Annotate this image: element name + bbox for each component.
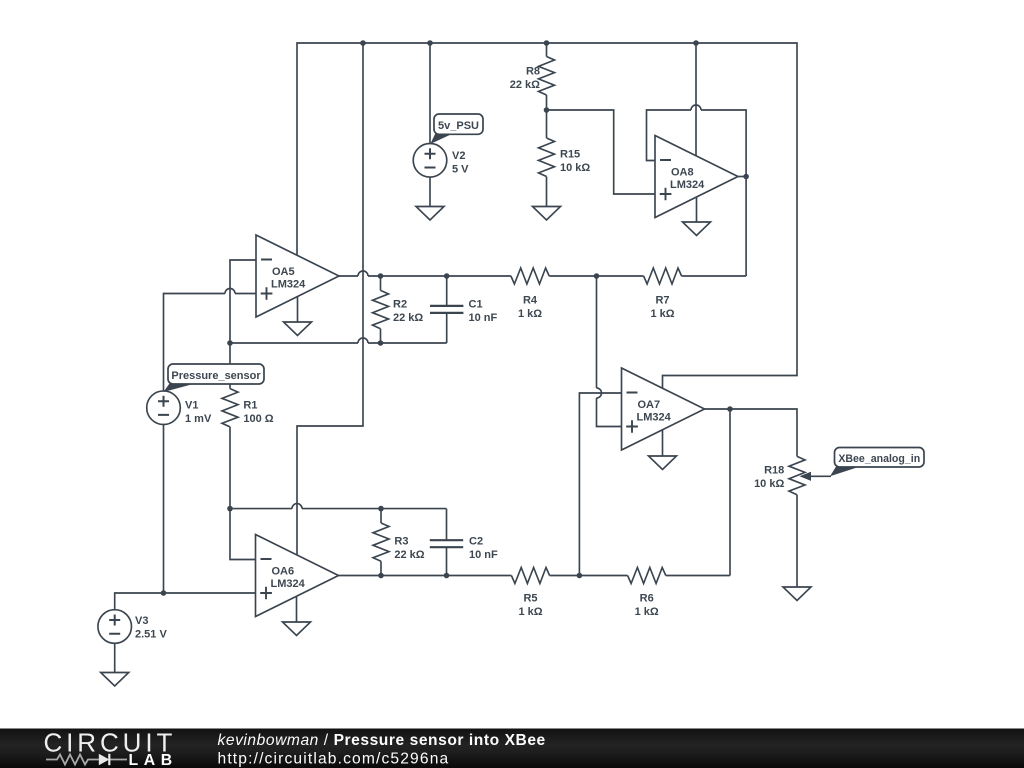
svg-text:R15: R15 [560,149,580,161]
svg-text:5v_PSU: 5v_PSU [438,120,479,132]
svg-text:10 nF: 10 nF [469,312,498,324]
svg-text:V3: V3 [135,615,148,627]
svg-text:1 kΩ: 1 kΩ [635,606,659,618]
svg-text:OA7: OA7 [638,399,661,411]
svg-text:22 kΩ: 22 kΩ [510,79,540,91]
svg-text:http://circuitlab.com/c5296na: http://circuitlab.com/c5296na [218,751,450,768]
svg-text:R8: R8 [526,66,540,78]
svg-text:1 mV: 1 mV [185,413,212,425]
svg-text:kevinbowman / Pressure sensor: kevinbowman / Pressure sensor into XBee [218,732,546,749]
svg-text:10 kΩ: 10 kΩ [754,478,784,490]
svg-text:1 kΩ: 1 kΩ [650,308,674,320]
svg-text:Pressure_sensor: Pressure_sensor [171,370,261,382]
svg-text:LM324: LM324 [637,412,672,424]
svg-text:OA8: OA8 [671,167,694,179]
svg-text:XBee_analog_in: XBee_analog_in [838,453,920,465]
svg-text:C2: C2 [469,536,483,548]
svg-text:R5: R5 [523,593,537,605]
svg-text:LAB: LAB [129,752,178,768]
svg-text:LM324: LM324 [271,279,306,291]
svg-text:OA5: OA5 [272,266,295,278]
svg-text:R2: R2 [393,299,407,311]
svg-text:C1: C1 [469,299,483,311]
svg-text:R4: R4 [523,295,538,307]
svg-text:R1: R1 [243,400,257,412]
svg-text:22 kΩ: 22 kΩ [393,312,423,324]
svg-text:2.51 V: 2.51 V [135,629,167,641]
svg-text:LM324: LM324 [670,179,705,191]
svg-text:10 nF: 10 nF [469,549,498,561]
svg-text:10 kΩ: 10 kΩ [560,162,590,174]
svg-text:V2: V2 [452,150,465,162]
svg-text:1 kΩ: 1 kΩ [518,308,542,320]
svg-text:R6: R6 [640,593,654,605]
svg-text:22 kΩ: 22 kΩ [394,549,424,561]
svg-text:5 V: 5 V [452,164,469,176]
svg-text:R18: R18 [764,465,784,477]
svg-text:LM324: LM324 [271,578,306,590]
svg-text:100 Ω: 100 Ω [243,413,273,425]
svg-text:V1: V1 [185,400,198,412]
svg-text:OA6: OA6 [272,566,295,578]
svg-text:R3: R3 [394,536,408,548]
svg-text:R7: R7 [655,295,669,307]
svg-text:1 kΩ: 1 kΩ [518,606,542,618]
